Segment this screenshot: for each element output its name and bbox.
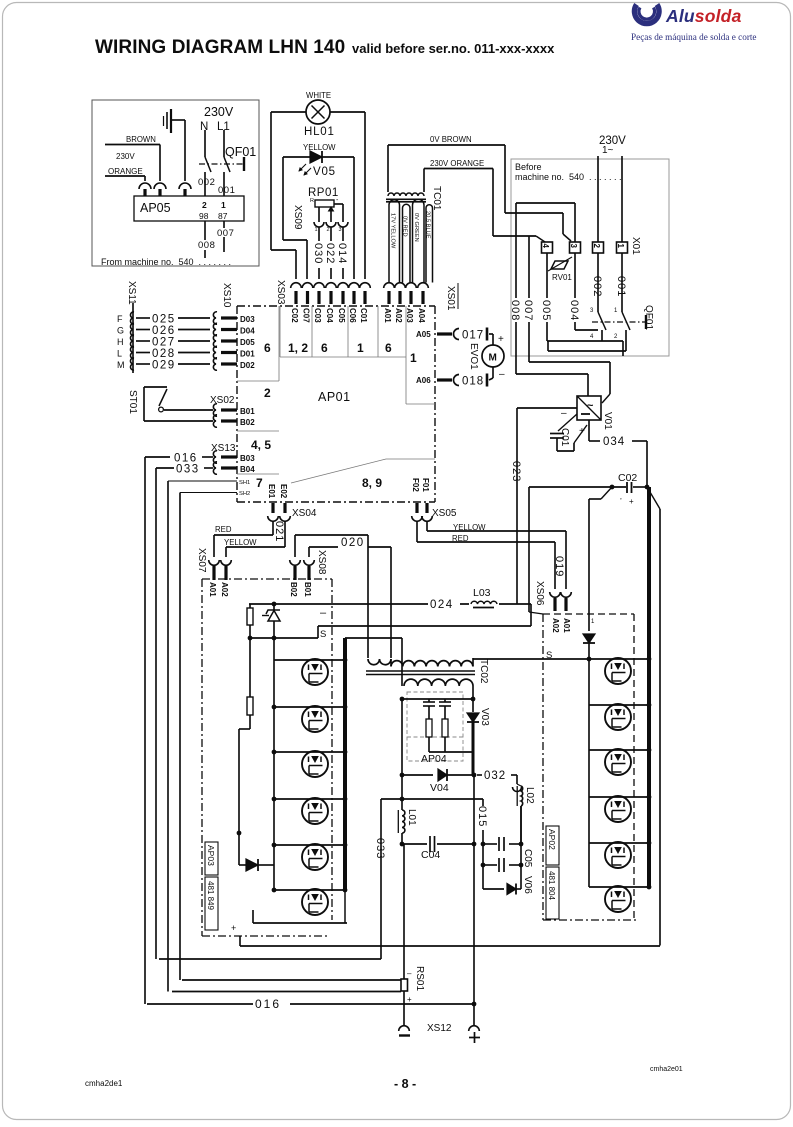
svg-text:~: ~ bbox=[587, 400, 594, 412]
svg-text:6: 6 bbox=[385, 341, 392, 355]
svg-text:007: 007 bbox=[217, 228, 234, 239]
svg-text:A02: A02 bbox=[551, 618, 560, 633]
svg-text:027: 027 bbox=[152, 337, 176, 349]
svg-text:2: 2 bbox=[202, 200, 207, 210]
svg-text:+: + bbox=[231, 923, 236, 933]
svg-text:028: 028 bbox=[152, 348, 176, 360]
svg-text:024: 024 bbox=[430, 599, 454, 611]
svg-text:–: – bbox=[320, 607, 327, 619]
svg-text:AP04: AP04 bbox=[421, 753, 447, 765]
svg-text:XS08: XS08 bbox=[316, 550, 327, 575]
svg-text:cmha2de1: cmha2de1 bbox=[85, 1079, 123, 1088]
svg-text:B04: B04 bbox=[240, 465, 255, 474]
svg-text:A04: A04 bbox=[417, 308, 426, 323]
svg-text:015: 015 bbox=[476, 806, 488, 827]
svg-text:1: 1 bbox=[357, 341, 364, 355]
svg-text:020: 020 bbox=[341, 537, 365, 549]
svg-text:3: 3 bbox=[569, 244, 578, 249]
svg-text:17V YELLOW: 17V YELLOW bbox=[390, 213, 396, 249]
svg-text:V03: V03 bbox=[479, 708, 490, 726]
svg-text:M: M bbox=[489, 353, 497, 364]
svg-text:E02: E02 bbox=[279, 484, 288, 499]
svg-text:8, 9: 8, 9 bbox=[362, 476, 382, 490]
svg-text:BROWN: BROWN bbox=[126, 135, 156, 144]
svg-text:- 8 -: - 8 - bbox=[394, 1077, 416, 1091]
svg-text:+: + bbox=[498, 334, 504, 345]
svg-text:1: 1 bbox=[616, 244, 625, 249]
svg-text:TC02: TC02 bbox=[478, 659, 489, 684]
svg-text:C05: C05 bbox=[522, 849, 533, 868]
svg-text:D02: D02 bbox=[240, 361, 255, 370]
svg-text:AP02: AP02 bbox=[547, 829, 557, 850]
svg-text:016: 016 bbox=[255, 997, 281, 1011]
svg-text:0V GREEN: 0V GREEN bbox=[413, 213, 419, 242]
svg-text:SH2: SH2 bbox=[239, 491, 250, 497]
svg-text:008: 008 bbox=[198, 240, 215, 251]
svg-text:B02: B02 bbox=[289, 582, 298, 597]
svg-text:029: 029 bbox=[152, 360, 176, 372]
svg-text:6: 6 bbox=[321, 341, 328, 355]
svg-text:F01: F01 bbox=[421, 478, 430, 492]
svg-text:machine no. 540 . . . . . .: machine no. 540 . . . . . . . bbox=[515, 172, 622, 182]
svg-text:XS04: XS04 bbox=[292, 508, 317, 519]
svg-text:SH1: SH1 bbox=[239, 480, 250, 486]
svg-text:C01: C01 bbox=[559, 428, 570, 447]
svg-text:QF01: QF01 bbox=[225, 145, 256, 159]
svg-text:WIRING DIAGRAM LHN 140: WIRING DIAGRAM LHN 140 bbox=[95, 37, 345, 58]
svg-text:B02: B02 bbox=[240, 418, 255, 427]
svg-text:230V: 230V bbox=[204, 105, 234, 119]
svg-text:YELLOW: YELLOW bbox=[224, 538, 257, 547]
svg-text:008: 008 bbox=[509, 300, 521, 321]
svg-text:WHITE: WHITE bbox=[306, 91, 331, 100]
svg-text:–: – bbox=[407, 969, 412, 978]
svg-text:From machine no. 540 . . . .: From machine no. 540 . . . . . . . bbox=[101, 257, 231, 267]
svg-text:N: N bbox=[200, 121, 208, 133]
svg-text:XS09: XS09 bbox=[292, 205, 303, 230]
svg-text:A01: A01 bbox=[383, 308, 392, 323]
svg-text:ORANGE: ORANGE bbox=[108, 167, 143, 176]
svg-text:V04: V04 bbox=[430, 782, 449, 794]
svg-text:1: 1 bbox=[221, 200, 226, 210]
svg-text:HL01: HL01 bbox=[304, 126, 335, 138]
svg-text:valid before ser.no. 011-xxx-x: valid before ser.no. 011-xxx-xxxx bbox=[352, 41, 555, 56]
svg-text:3: 3 bbox=[339, 227, 342, 233]
svg-text:AP01: AP01 bbox=[318, 390, 351, 404]
svg-text:XS01: XS01 bbox=[445, 286, 456, 311]
svg-text:C03: C03 bbox=[313, 308, 322, 323]
svg-text:1: 1 bbox=[410, 351, 417, 365]
svg-text:AP03: AP03 bbox=[206, 845, 216, 866]
svg-text:XS06: XS06 bbox=[534, 581, 545, 606]
svg-text:C06: C06 bbox=[348, 308, 357, 323]
svg-text:A02: A02 bbox=[220, 582, 229, 597]
svg-text:QF01: QF01 bbox=[643, 305, 654, 330]
svg-text:001: 001 bbox=[615, 276, 627, 297]
svg-text:0V RED: 0V RED bbox=[402, 216, 408, 237]
svg-text:ST01: ST01 bbox=[127, 390, 138, 414]
svg-text:XS07: XS07 bbox=[196, 548, 207, 573]
svg-text:XS13: XS13 bbox=[211, 443, 236, 454]
svg-text:B01: B01 bbox=[240, 407, 255, 416]
svg-text:R: R bbox=[310, 198, 314, 204]
svg-text:A01: A01 bbox=[208, 582, 217, 597]
svg-text:EVO1: EVO1 bbox=[468, 343, 479, 370]
svg-text:XS11: XS11 bbox=[126, 281, 137, 305]
svg-text:D01: D01 bbox=[240, 350, 255, 359]
svg-text:V01: V01 bbox=[602, 412, 613, 430]
svg-text:A02: A02 bbox=[394, 308, 403, 323]
svg-text:022: 022 bbox=[324, 243, 336, 264]
svg-text:007: 007 bbox=[522, 300, 534, 321]
svg-text:V06: V06 bbox=[522, 876, 533, 894]
svg-text:XS10: XS10 bbox=[221, 283, 232, 308]
svg-text:L01: L01 bbox=[406, 809, 417, 826]
svg-text:D04: D04 bbox=[240, 327, 255, 336]
svg-text:M: M bbox=[117, 360, 125, 370]
svg-text:002: 002 bbox=[591, 276, 603, 297]
svg-text:017: 017 bbox=[462, 330, 484, 342]
svg-text:G: G bbox=[117, 326, 124, 336]
svg-text:–: – bbox=[499, 369, 505, 380]
svg-text:B03: B03 bbox=[240, 454, 255, 463]
svg-text:026: 026 bbox=[152, 325, 176, 337]
svg-text:030: 030 bbox=[312, 243, 324, 264]
svg-text:XS12: XS12 bbox=[427, 1023, 452, 1034]
svg-text:6: 6 bbox=[264, 341, 271, 355]
svg-text:033: 033 bbox=[374, 838, 386, 859]
svg-text:AP05: AP05 bbox=[140, 201, 171, 215]
svg-text:L03: L03 bbox=[473, 587, 491, 599]
svg-text:+: + bbox=[407, 995, 412, 1004]
svg-text:V05: V05 bbox=[313, 166, 336, 178]
svg-text:2: 2 bbox=[592, 244, 601, 249]
svg-text:RV01: RV01 bbox=[552, 273, 572, 282]
svg-text:481 804: 481 804 bbox=[547, 871, 556, 900]
svg-text:021: 021 bbox=[273, 521, 285, 542]
svg-text:C02: C02 bbox=[290, 308, 299, 323]
svg-text:001: 001 bbox=[218, 185, 235, 196]
svg-text:XS05: XS05 bbox=[432, 508, 457, 519]
svg-text:L: L bbox=[117, 349, 122, 359]
svg-text:4, 5: 4, 5 bbox=[251, 438, 271, 452]
svg-text:2: 2 bbox=[327, 227, 330, 233]
svg-text:C05: C05 bbox=[337, 308, 346, 323]
svg-text:F02: F02 bbox=[411, 478, 420, 492]
svg-text:D05: D05 bbox=[240, 338, 255, 347]
svg-text:019: 019 bbox=[553, 556, 565, 577]
svg-text:L02: L02 bbox=[524, 787, 535, 804]
svg-text:018: 018 bbox=[462, 376, 484, 388]
svg-text:D03: D03 bbox=[240, 315, 255, 324]
svg-text:034: 034 bbox=[603, 436, 625, 448]
svg-text:Alusolda: Alusolda bbox=[665, 6, 742, 26]
svg-text:A01: A01 bbox=[562, 618, 571, 633]
svg-text:C01: C01 bbox=[359, 308, 368, 323]
svg-text:C04: C04 bbox=[325, 308, 334, 323]
svg-text:’: ’ bbox=[620, 497, 622, 506]
svg-text:014: 014 bbox=[336, 243, 348, 264]
svg-text:7: 7 bbox=[256, 476, 263, 490]
svg-text:X01: X01 bbox=[630, 237, 641, 255]
svg-text:Before: Before bbox=[515, 162, 542, 172]
svg-text:A06: A06 bbox=[416, 376, 431, 385]
svg-text:YELLOW: YELLOW bbox=[303, 143, 336, 152]
svg-text:RED: RED bbox=[215, 525, 232, 534]
svg-text:1~: 1~ bbox=[602, 145, 614, 156]
svg-text:H: H bbox=[117, 337, 124, 347]
svg-text:RS01: RS01 bbox=[414, 966, 425, 991]
svg-text:1: 1 bbox=[315, 227, 318, 233]
svg-text:XS03: XS03 bbox=[275, 280, 286, 305]
svg-text:0V BROWN: 0V BROWN bbox=[430, 135, 472, 144]
svg-text:+: + bbox=[629, 497, 634, 506]
svg-text:4: 4 bbox=[541, 244, 550, 249]
svg-text:B01: B01 bbox=[303, 582, 312, 597]
svg-text:F: F bbox=[117, 314, 123, 324]
svg-text:E01: E01 bbox=[267, 484, 276, 499]
svg-text:481 849: 481 849 bbox=[206, 881, 215, 910]
svg-text:230V: 230V bbox=[116, 152, 135, 161]
svg-text:Peças de máquina de solda e co: Peças de máquina de solda e corte bbox=[631, 32, 757, 42]
svg-text:033: 033 bbox=[176, 464, 200, 476]
svg-text:C07: C07 bbox=[302, 308, 311, 323]
svg-text:002: 002 bbox=[198, 177, 215, 188]
svg-text:cmha2e01: cmha2e01 bbox=[650, 1066, 683, 1073]
svg-text:230V ORANGE: 230V ORANGE bbox=[430, 159, 484, 168]
svg-text:1, 2: 1, 2 bbox=[288, 341, 308, 355]
svg-text:87: 87 bbox=[218, 211, 228, 221]
svg-text:98: 98 bbox=[199, 211, 209, 221]
svg-text:–: – bbox=[561, 408, 567, 419]
svg-text:C04: C04 bbox=[421, 849, 440, 861]
svg-text:025: 025 bbox=[152, 314, 176, 326]
svg-text:004: 004 bbox=[568, 300, 580, 321]
svg-text:023: 023 bbox=[510, 461, 522, 482]
svg-text:S: S bbox=[320, 629, 326, 640]
svg-text:2: 2 bbox=[264, 386, 271, 400]
svg-text:20,5 BLUE: 20,5 BLUE bbox=[425, 211, 431, 239]
svg-text:005: 005 bbox=[540, 300, 552, 321]
svg-text:032: 032 bbox=[484, 770, 506, 782]
svg-text:A05: A05 bbox=[416, 330, 431, 339]
